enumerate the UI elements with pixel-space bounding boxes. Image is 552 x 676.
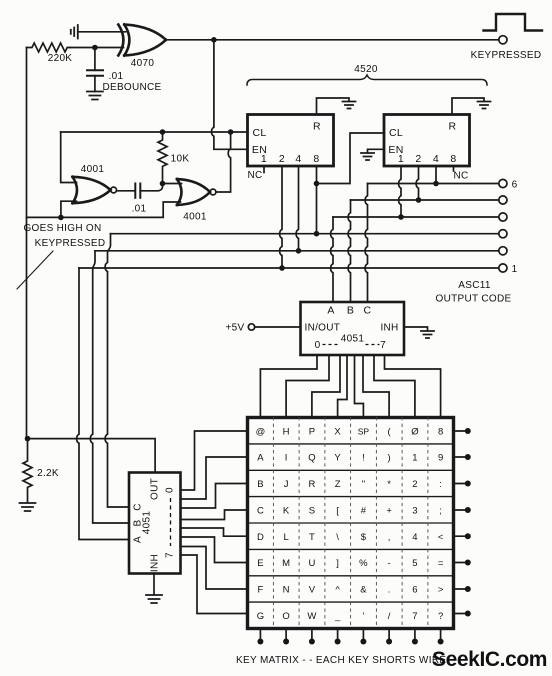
svg-text:2: 2 [412,479,417,490]
wire: mux pin1 to matrix col2 [286,355,329,418]
svg-text:C: C [257,505,264,516]
svg-text:DEBOUNCE: DEBOUNCE [102,82,161,93]
svg-text:8: 8 [313,153,319,165]
svg-text:J: J [284,479,289,490]
key matrix cell labels [256,426,444,622]
svg-text:_: _ [334,611,341,622]
wire: pin2 left counter down (hops bit3,bit2) [280,166,282,268]
svg-text:,: , [388,532,391,543]
svg-text::: : [439,479,442,490]
svg-text:+5V: +5V [226,323,245,334]
node: right pin2 on bus bit5 [416,197,422,203]
key matrix column separators (dashed) [273,418,428,629]
svg-text:CL: CL [389,127,403,139]
svg-text:C: C [133,503,144,511]
wire: U5 pin2 to matrix row B [181,484,248,509]
wire: right pin4 down [435,166,437,184]
svg-text:-: - [388,558,391,569]
wire: cap to RC node to gate2 top input [140,184,181,191]
wire: bit6 down to mux C (hops bit5..bit1) [365,184,367,303]
wire: mux pin4 to matrix col5 [355,355,364,418]
svg-text:ASC11: ASC11 [458,280,491,291]
matrix bottom column terminals [260,629,440,640]
terminal: KEYPRESSED circle [499,36,507,44]
svg-text:#: # [361,505,367,516]
svg-text:7: 7 [165,552,176,558]
terminal: output 5 [499,196,507,204]
node: 10K top on CL line [160,129,166,135]
stub: NC pin8 right counter [453,166,455,171]
wire: bus bit6 to output 6 [368,183,499,185]
counter U3a 4520 (left half) [248,115,334,167]
svg-text:': ' [362,611,364,622]
svg-text:10K: 10K [171,154,190,165]
wire: bus bit4 to output 4 [333,216,499,218]
svg-text:E: E [257,558,263,569]
leader line: GOES HIGH ON KEYPRESSED [17,251,53,289]
capacitor .01 (oscillator) [134,184,136,198]
terminal: output 6 [499,179,507,187]
wire: U5 pin6 to matrix row F [181,547,248,590]
svg-text:]: ] [336,558,339,569]
svg-text:SeekIC.com: SeekIC.com [432,648,547,671]
terminal: output 1 [499,264,507,272]
ground: below debounce cap [87,92,103,100]
resistor 2.2K [23,439,32,503]
terminal: output 4 [499,213,507,221]
wire: mux pin5 to matrix col6 [363,355,389,418]
wire: XOR output down to EN line (hops CL line) [212,40,248,150]
ground: U5 INH [146,595,162,603]
capacitor .01 DEBOUNCE [94,48,96,71]
counter U3b 4520 (right half) [384,115,470,167]
svg-text:4: 4 [295,153,301,165]
mux U4 dash marks [323,344,380,346]
wire: +5V to IN/OUT [255,326,301,328]
wire: mux pin3 to matrix col4 [338,355,347,418]
svg-text:.: . [388,585,391,596]
node: RC node at gate2 input [160,181,166,187]
node: pin4 on bus bit2 [296,248,302,254]
terminal: +5V circle [248,324,254,330]
terminal: output 2 [499,247,507,255]
node: right pin1 on bus bit4 [398,214,404,220]
svg-text:V: V [309,585,316,596]
wire: mux pin0 to matrix col1 [260,355,317,418]
svg-text:1: 1 [412,453,417,464]
wire: bit5 down to mux B (hops bit4..bit1) [348,200,350,302]
svg-text:2: 2 [415,153,421,165]
svg-text:R: R [313,121,321,133]
svg-text:KEY MATRIX - - EACH KEY SHORTS: KEY MATRIX - - EACH KEY SHORTS WIRE [236,655,446,666]
svg-text:A: A [257,453,264,464]
svg-text:IN/OUT: IN/OUT [305,323,341,334]
wire: U5 pin1 to matrix row A [181,457,248,499]
svg-text:B: B [133,519,144,526]
wire: CL line down to gate1 top input [61,132,77,183]
wire: key-sense vertical (left rail) [26,48,28,439]
svg-text:1: 1 [261,153,267,165]
svg-text:W: W [307,611,316,622]
svg-text:OUT: OUT [150,478,161,500]
wire: bit1 left end down to row mux A (hops 2.2K line) [77,268,129,540]
stub: NC pin1 left counter [263,166,265,173]
ground: right counter EN [361,153,374,160]
wire: mux pin7 to matrix col8 [385,355,441,418]
svg-text:>: > [438,585,444,596]
svg-text:L: L [283,532,288,543]
node: XOR output junction [211,37,217,43]
svg-text:9: 9 [438,453,443,464]
svg-text:6: 6 [412,585,417,596]
node: pin8 branch to second counter clock [314,181,320,187]
wire: right counter R to ground [452,98,484,115]
wire: U5 pin7 to matrix row G [181,555,248,614]
wire: XOR output to KEYPRESSED [166,39,499,41]
node: right pin4 on bus bit6 [433,181,439,187]
wire: bus bit1 line [79,267,499,269]
svg-text:<: < [438,532,444,543]
svg-text:": " [362,479,365,490]
svg-text:INH: INH [150,554,161,572]
svg-text:(: ( [388,426,392,437]
svg-text:): ) [388,453,391,464]
wire: enable line to gate inputs [27,202,181,217]
svg-text:Y: Y [334,453,341,464]
svg-text:@: @ [256,426,266,437]
svg-text:GOES HIGH ON: GOES HIGH ON [23,223,101,234]
terminal: output 3 [499,230,507,238]
key matrix outer border [248,418,454,629]
svg-text:4520: 4520 [354,64,378,75]
wire: right pin1 down (hops bit6,bit5) [399,166,401,217]
node: gate2 output riser on CL line [228,129,234,135]
node: gate1 lower input branch [58,215,64,221]
resistor 220K [27,43,71,52]
svg-text:SP: SP [358,426,370,436]
node: debounce junction [92,45,98,51]
wire: pin8 left counter down [316,166,318,234]
wire: link to right counter CL [317,133,385,184]
svg-text:8: 8 [438,426,443,437]
wire: gate1 output to cap [117,190,136,192]
svg-text:4051: 4051 [341,334,365,345]
wire: U5 pin0 to matrix row @ [181,431,248,490]
svg-text:[: [ [336,505,339,516]
svg-text:OUTPUT CODE: OUTPUT CODE [436,294,512,305]
svg-text:T: T [309,532,315,543]
wire: branch up to gate1 bottom input [61,201,77,217]
svg-text:H: H [283,426,290,437]
svg-text:N: N [283,585,290,596]
svg-text:.01: .01 [109,71,124,82]
svg-text:7: 7 [412,611,417,622]
svg-text:Ø: Ø [411,426,419,437]
wire: U5 INH to ground [153,574,155,595]
svg-text:R: R [449,121,457,133]
node: 2.2K junction [25,436,31,442]
wire: 2.2K pulldown line to row mux OUT [28,439,156,473]
svg-text:INH: INH [380,323,398,334]
svg-text:;: ; [439,505,442,516]
wire: U5 pin5 to matrix row E [181,537,248,563]
svg-text:M: M [282,558,290,569]
resistor 10K [158,132,167,184]
svg-text:NC: NC [247,170,262,181]
svg-text:0: 0 [315,340,321,351]
svg-text:A: A [133,536,144,543]
wire: bit2 left end down to row mux B (hops bit1,2.2K line) [90,251,129,523]
mux U5 4051 (row select, rotated) [129,473,181,574]
nor-gate U2a 4001 [73,177,111,203]
svg-text:%: % [359,558,368,569]
svg-text:220K: 220K [48,53,73,64]
ground: right counter reset [478,102,491,109]
wire: bus bit5 to output 5 [351,199,499,201]
svg-text:K: K [283,505,290,516]
svg-text:C: C [364,305,372,317]
svg-text:4001: 4001 [81,164,105,175]
svg-text:4: 4 [412,532,417,543]
svg-text:*: * [387,479,391,490]
ground: left counter reset [343,102,356,109]
svg-text:R: R [308,479,315,490]
wire: right counter EN to ground [368,149,385,152]
wire: left counter R to ground [317,98,350,115]
svg-text:Q: Q [308,453,315,464]
svg-text:1: 1 [512,264,518,275]
wire: mux pin2 to matrix col3 [312,355,340,418]
wire: INH to ground [404,327,428,331]
wire: right pin2 down (hops bit6) [416,166,418,200]
svg-text:8: 8 [450,153,456,165]
svg-text:+: + [386,505,392,516]
svg-text:$: $ [361,532,367,543]
svg-text:X: X [334,426,341,437]
svg-text:KEYPRESSED: KEYPRESSED [471,50,542,61]
wire: CL line (gate2 out / 10K top / counter CL) [61,131,248,133]
svg-text:4070: 4070 [131,58,155,69]
svg-text:7: 7 [380,340,386,351]
wire: bus bit2 line [95,250,499,252]
wire: mux pin6 to matrix col7 [374,355,415,418]
svg-text:CL: CL [252,127,266,139]
svg-text:=: = [438,558,444,569]
svg-text:D: D [257,532,264,543]
svg-text:P: P [309,426,315,437]
svg-text:!: ! [362,453,365,464]
waveform: key pulse [484,14,543,31]
brace: 4520 label over both counters [247,75,487,85]
ground: mux U4 INH [421,331,434,338]
ground: rotated, at XOR top input [71,25,78,39]
svg-text:6: 6 [512,180,518,191]
svg-text:F: F [257,585,263,596]
svg-text:?: ? [438,611,443,622]
svg-text:/: / [388,611,391,622]
svg-text:G: G [257,611,264,622]
wire: bit4 down to mux A (hops bit3..bit1) [331,217,333,302]
node: pin2 on bus bit1 [279,265,285,271]
matrix right row terminals [454,431,466,614]
svg-text:1: 1 [398,153,404,165]
svg-text:4: 4 [433,153,439,165]
svg-text:2: 2 [279,153,285,165]
wire: U5 pin4 to matrix row D [181,528,248,536]
mux U4 4051 (column select) [301,302,405,355]
svg-text:NC: NC [453,171,468,182]
XOR gate U1 4070 [118,25,166,56]
svg-text:I: I [285,453,288,464]
svg-text:S: S [309,505,315,516]
wire: ground to XOR top input [78,31,126,33]
wire: bus bit3 line [111,233,499,235]
svg-text:3: 3 [412,505,417,516]
svg-text:U: U [308,558,315,569]
wire: gate2 output up to CL line (hops EN line) [216,132,231,192]
wire: U5 pin3 to matrix row C [181,510,248,520]
node: pin8 on bus bit3 [314,231,320,237]
svg-text:Z: Z [335,479,341,490]
svg-text:^: ^ [335,585,340,596]
wire: pin4 left counter down (hops bit3) [296,166,298,251]
svg-text:5: 5 [412,558,417,569]
ground: below 2.2K [20,503,36,511]
svg-text:\: \ [336,532,339,543]
svg-text:A: A [327,305,334,317]
svg-text:B: B [257,479,263,490]
nor-gate U2b 4001 [177,179,210,205]
svg-text:O: O [282,611,289,622]
svg-text:&: & [360,585,367,596]
svg-text:.01: .01 [132,204,147,215]
key matrix row separator lines [248,444,454,602]
wire: resistor to XOR input [70,47,124,49]
svg-text:2.2K: 2.2K [37,468,59,479]
svg-text:4001: 4001 [183,212,207,223]
svg-text:B: B [347,305,354,317]
svg-text:0: 0 [165,487,176,493]
mux U5 dash marks (rotated) [170,498,172,546]
svg-text:KEYPRESSED: KEYPRESSED [35,238,106,249]
wire: bit3 left end down to row mux C (hops bit2,bit1,2.2K line) [105,234,129,507]
